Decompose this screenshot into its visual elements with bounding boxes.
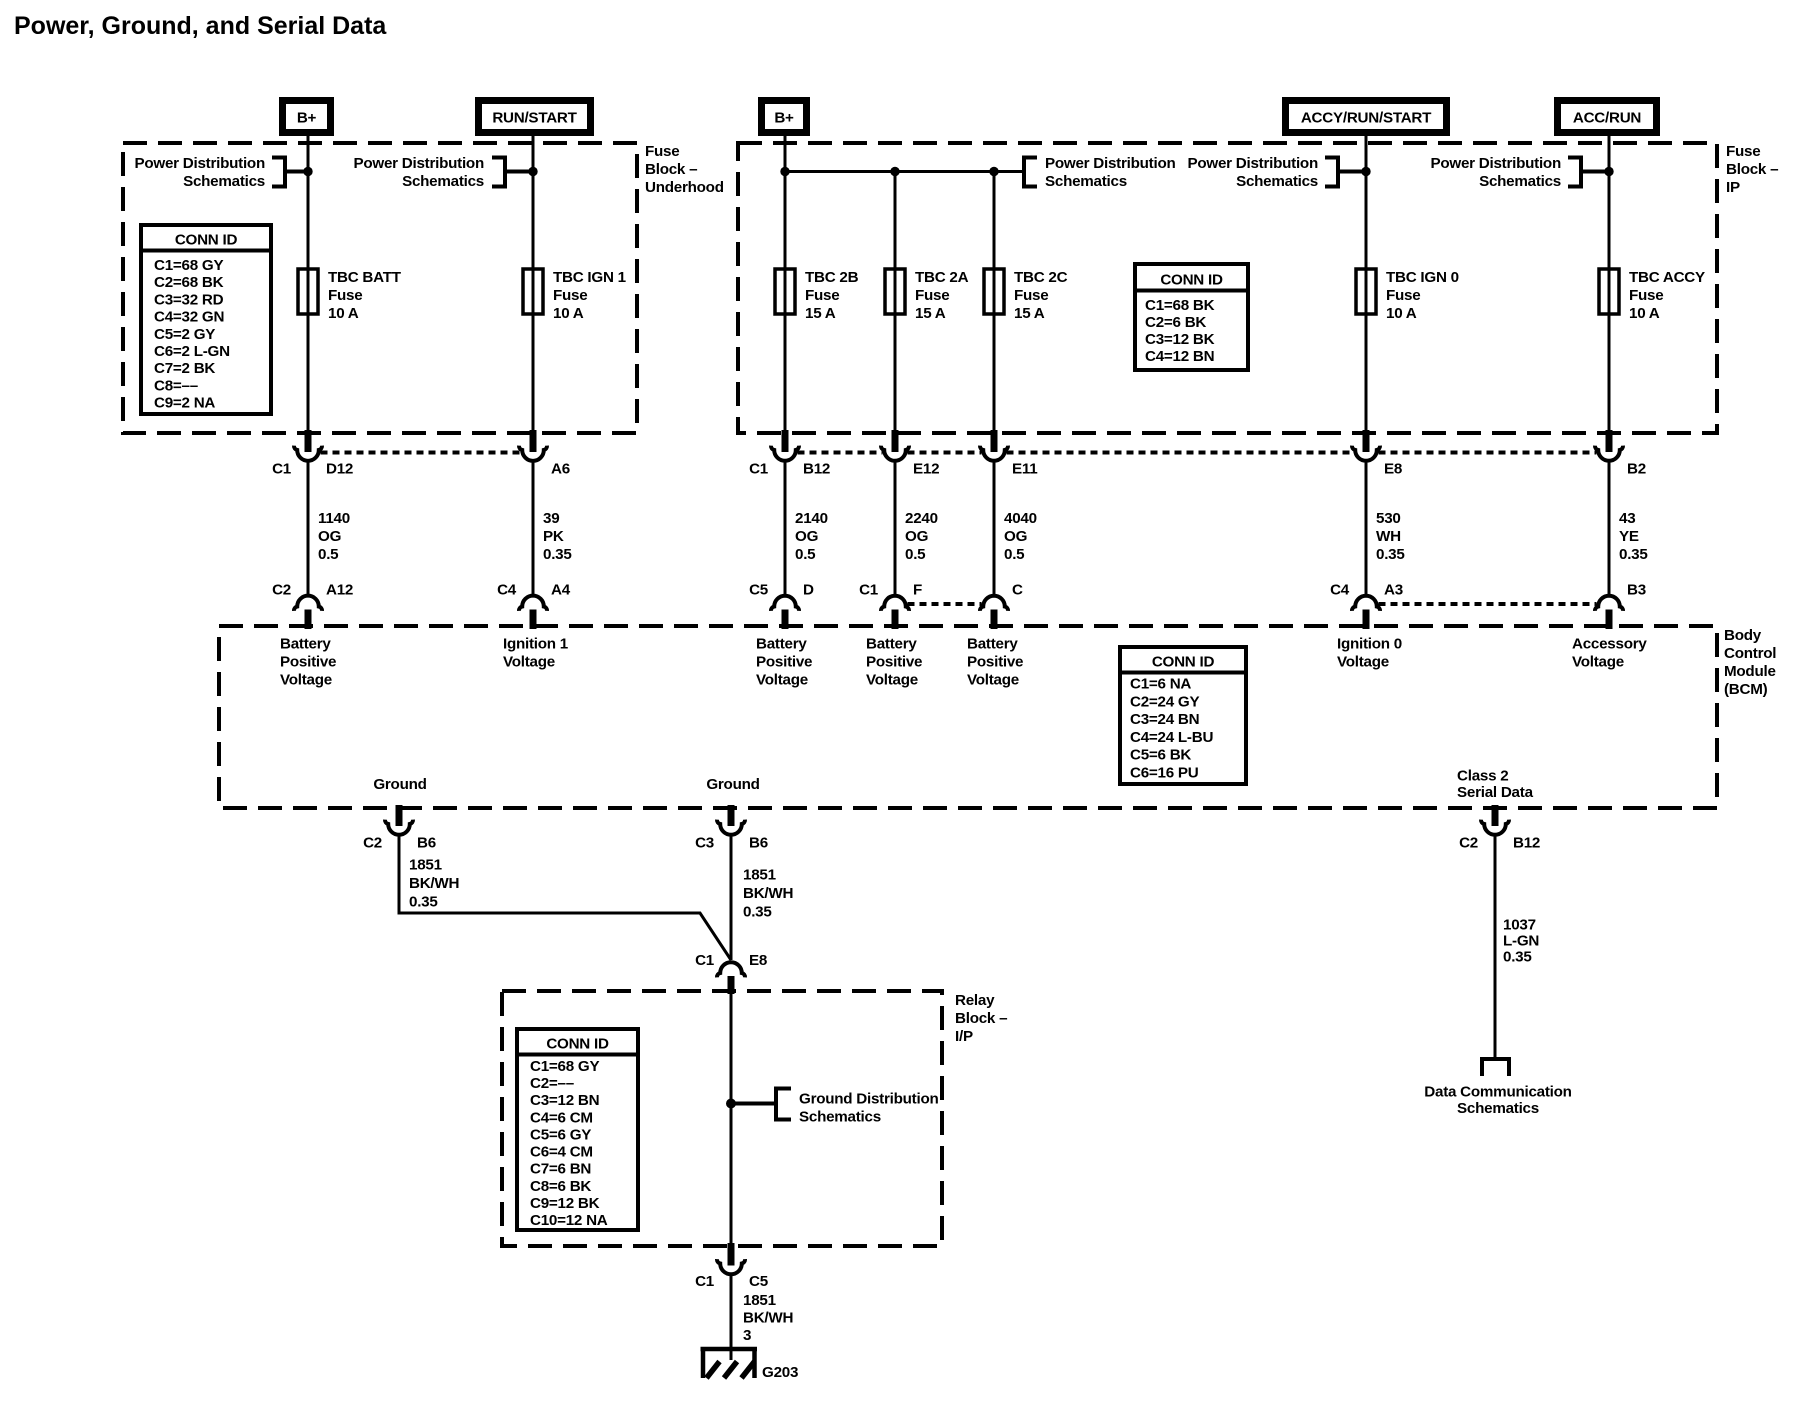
CONN ID table (Fuse Block Underhood) bbox=[141, 225, 271, 414]
wire 39 PK 0.35 bbox=[533, 462, 572, 596]
fuse TBC ACCY 10 A bbox=[1599, 269, 1705, 322]
svg-text:C4: C4 bbox=[1330, 582, 1350, 599]
connector E11 (harness side) bbox=[980, 430, 1038, 478]
svg-text:CONN ID: CONN ID bbox=[175, 232, 238, 249]
wire: TBC IGN 1 feed down fuse block column x=533 bbox=[532, 136, 535, 433]
dotted connector face line A3-B3 bbox=[1379, 602, 1597, 606]
connector C3 B6 (harness side) bbox=[695, 805, 768, 852]
svg-text:15 A: 15 A bbox=[1014, 305, 1045, 322]
svg-text:15 A: 15 A bbox=[805, 305, 836, 322]
svg-text:ACCY/RUN/START: ACCY/RUN/START bbox=[1301, 110, 1432, 127]
wire 4040 OG 0.5 bbox=[994, 462, 1037, 596]
svg-text:BK/WH: BK/WH bbox=[743, 885, 793, 902]
junction on B+ bus at TBC 2A bbox=[890, 167, 899, 176]
junction: ground distribution tap bbox=[726, 1099, 736, 1109]
svg-text:1037: 1037 bbox=[1503, 917, 1536, 934]
CONN ID table (Relay Block I/P) bbox=[517, 1029, 638, 1230]
fuse TBC 2A 15 A bbox=[885, 269, 969, 322]
svg-text:B3: B3 bbox=[1627, 582, 1646, 599]
svg-text:C1: C1 bbox=[272, 461, 292, 478]
svg-text:C1: C1 bbox=[749, 461, 769, 478]
svg-text:G203: G203 bbox=[762, 1364, 798, 1381]
svg-text:0.35: 0.35 bbox=[543, 546, 572, 563]
svg-text:A4: A4 bbox=[551, 582, 571, 599]
Power Distribution Schematics reference (TBC BATT feed) bbox=[134, 155, 312, 190]
wire: TBC ACCY feed down fuse block column x=1609 bbox=[1608, 136, 1611, 433]
svg-text:D12: D12 bbox=[326, 461, 353, 478]
svg-text:C1: C1 bbox=[695, 1273, 715, 1290]
svg-text:1140: 1140 bbox=[318, 510, 350, 527]
svg-text:C1=68 GY: C1=68 GY bbox=[530, 1058, 599, 1075]
svg-text:B6: B6 bbox=[417, 835, 436, 852]
svg-text:C10=12 NA: C10=12 NA bbox=[530, 1212, 608, 1229]
svg-text:0.35: 0.35 bbox=[1376, 546, 1405, 563]
svg-text:C2=24 GY: C2=24 GY bbox=[1130, 693, 1199, 710]
svg-text:Fuse: Fuse bbox=[1629, 287, 1663, 304]
dotted connector face line E11-E8 bbox=[1007, 451, 1354, 455]
svg-text:E8: E8 bbox=[749, 952, 767, 969]
connector C1 C5 (harness side) bbox=[695, 1243, 769, 1290]
svg-text:B+: B+ bbox=[297, 110, 317, 127]
junction on B+ bus at TBC 2C bbox=[989, 167, 998, 176]
svg-text:C6=2 L-GN: C6=2 L-GN bbox=[154, 343, 230, 360]
svg-text:A12: A12 bbox=[326, 582, 353, 599]
Fuse Block - Underhood dashed box bbox=[123, 143, 637, 433]
svg-text:1851: 1851 bbox=[743, 1292, 777, 1309]
fuse TBC BATT 10 A bbox=[298, 269, 402, 322]
svg-text:39: 39 bbox=[543, 510, 559, 527]
connector C (component side) bbox=[980, 582, 1023, 630]
Fuse Block - IP dashed box bbox=[738, 143, 1717, 433]
svg-text:10 A: 10 A bbox=[328, 305, 359, 322]
svg-text:530: 530 bbox=[1376, 510, 1401, 527]
fuse TBC IGN 0 10 A bbox=[1356, 269, 1459, 322]
svg-text:Schematics: Schematics bbox=[402, 173, 484, 190]
svg-text:C2: C2 bbox=[1459, 835, 1478, 852]
svg-text:BatteryPositiveVoltage: BatteryPositiveVoltage bbox=[967, 636, 1023, 689]
svg-text:TBC IGN 0: TBC IGN 0 bbox=[1386, 269, 1459, 286]
svg-text:Schematics: Schematics bbox=[1236, 173, 1318, 190]
svg-text:B12: B12 bbox=[803, 461, 830, 478]
svg-text:L-GN: L-GN bbox=[1503, 933, 1539, 950]
wire: TBC BATT feed down fuse block column x=308 bbox=[307, 136, 310, 433]
svg-text:C7=6 BN: C7=6 BN bbox=[530, 1161, 591, 1178]
svg-text:B6: B6 bbox=[749, 835, 768, 852]
svg-text:C7=2 BK: C7=2 BK bbox=[154, 360, 215, 377]
svg-text:0.5: 0.5 bbox=[1004, 546, 1025, 563]
svg-text:C5: C5 bbox=[749, 1273, 769, 1290]
svg-text:C5=2 GY: C5=2 GY bbox=[154, 326, 215, 343]
svg-text:TBC ACCY: TBC ACCY bbox=[1629, 269, 1705, 286]
power feed label ACC/RUN bbox=[1554, 97, 1660, 136]
svg-text:C8=––: C8=–– bbox=[154, 377, 198, 394]
svg-text:C1: C1 bbox=[695, 952, 715, 969]
svg-text:YE: YE bbox=[1619, 528, 1639, 545]
svg-text:TBC IGN 1: TBC IGN 1 bbox=[553, 269, 627, 286]
ground G203 symbol bbox=[701, 1349, 758, 1378]
svg-text:D: D bbox=[803, 582, 814, 599]
Power Distribution Schematics reference (TBC ACCY feed) bbox=[1430, 155, 1613, 190]
dotted connector face line E8-B2 bbox=[1379, 451, 1597, 455]
svg-text:CONN ID: CONN ID bbox=[546, 1036, 609, 1053]
connector C1 B12 (harness side) bbox=[749, 430, 830, 478]
svg-text:Power Distribution: Power Distribution bbox=[1187, 155, 1318, 172]
fuse TBC 2C 15 A bbox=[984, 269, 1068, 322]
svg-text:C9=12 BK: C9=12 BK bbox=[530, 1195, 600, 1212]
connector C1 F (component side) bbox=[859, 582, 922, 630]
svg-text:C6=16 PU: C6=16 PU bbox=[1130, 765, 1199, 782]
Relay Block - I/P dashed box bbox=[502, 991, 942, 1246]
svg-text:4040: 4040 bbox=[1004, 510, 1037, 527]
svg-text:B+: B+ bbox=[774, 110, 794, 127]
connector C4 A4 (component side) bbox=[497, 582, 571, 630]
svg-text:Fuse: Fuse bbox=[1014, 287, 1048, 304]
connector E8 (harness side) bbox=[1352, 430, 1402, 478]
svg-text:E12: E12 bbox=[913, 461, 939, 478]
svg-text:C3=12 BN: C3=12 BN bbox=[530, 1092, 599, 1109]
svg-text:OG: OG bbox=[1004, 528, 1027, 545]
connector A6 (harness side) bbox=[519, 430, 570, 478]
wire 43 YE 0.35 bbox=[1609, 462, 1648, 596]
wire 530 WH 0.35 bbox=[1366, 462, 1405, 596]
svg-text:OG: OG bbox=[905, 528, 928, 545]
svg-text:Fuse: Fuse bbox=[915, 287, 949, 304]
svg-text:C2: C2 bbox=[363, 835, 382, 852]
svg-text:Power, Ground, and Serial Data: Power, Ground, and Serial Data bbox=[14, 12, 387, 40]
connector E12 (harness side) bbox=[881, 430, 939, 478]
svg-text:10 A: 10 A bbox=[553, 305, 584, 322]
svg-text:Ground: Ground bbox=[373, 776, 426, 793]
svg-text:Power Distribution: Power Distribution bbox=[1045, 155, 1176, 172]
connector C1 E8 (component side) bbox=[695, 952, 767, 994]
svg-text:WH: WH bbox=[1376, 528, 1401, 545]
svg-text:C9=2 NA: C9=2 NA bbox=[154, 395, 215, 412]
svg-text:Power Distribution: Power Distribution bbox=[1430, 155, 1561, 172]
svg-text:C: C bbox=[1012, 582, 1023, 599]
svg-text:B2: B2 bbox=[1627, 461, 1646, 478]
svg-text:Power Distribution: Power Distribution bbox=[353, 155, 484, 172]
svg-text:E8: E8 bbox=[1384, 461, 1402, 478]
svg-text:0.35: 0.35 bbox=[1503, 949, 1532, 966]
dotted connector face line D12-A6 bbox=[321, 451, 521, 455]
svg-text:A6: A6 bbox=[551, 461, 570, 478]
svg-text:10 A: 10 A bbox=[1629, 305, 1660, 322]
svg-text:0.5: 0.5 bbox=[318, 546, 339, 563]
svg-text:C2=68 BK: C2=68 BK bbox=[154, 274, 224, 291]
connector C2 A12 (component side) bbox=[272, 582, 353, 630]
off-page terminator (serial data to data communication schematics) bbox=[1482, 1059, 1509, 1076]
fuse TBC IGN 1 10 A bbox=[523, 269, 627, 322]
power feed label ACCY/RUN/START bbox=[1282, 97, 1450, 136]
svg-text:OG: OG bbox=[795, 528, 818, 545]
svg-text:15 A: 15 A bbox=[915, 305, 946, 322]
svg-text:E11: E11 bbox=[1012, 461, 1038, 478]
svg-text:OG: OG bbox=[318, 528, 341, 545]
svg-text:C1=6 NA: C1=6 NA bbox=[1130, 676, 1191, 693]
Power Distribution Schematics reference (IP B+ bus) bbox=[1024, 155, 1176, 190]
fuse TBC 2B 15 A bbox=[775, 269, 859, 322]
svg-text:Fuse: Fuse bbox=[1386, 287, 1420, 304]
wire: TBC 2A feed down fuse block column x=895 bbox=[894, 171, 897, 433]
svg-text:C1: C1 bbox=[859, 582, 879, 599]
svg-text:2240: 2240 bbox=[905, 510, 938, 527]
Ground Distribution Schematics reference bbox=[731, 1089, 939, 1126]
svg-text:B12: B12 bbox=[1513, 835, 1540, 852]
svg-text:C3: C3 bbox=[695, 835, 714, 852]
svg-text:Schematics: Schematics bbox=[1045, 173, 1127, 190]
power feed label RUN/START bbox=[475, 97, 594, 136]
Power Distribution Schematics reference (TBC IGN 1 feed) bbox=[353, 155, 537, 190]
svg-text:3: 3 bbox=[743, 1327, 751, 1344]
wire 1037 L-GN 0.35 (Class 2 serial data) bbox=[1495, 836, 1539, 1060]
svg-text:0.5: 0.5 bbox=[905, 546, 926, 563]
wire: TBC 2B feed down fuse block column x=785 bbox=[784, 136, 787, 433]
svg-text:C2=––: C2=–– bbox=[530, 1075, 574, 1092]
svg-text:ACC/RUN: ACC/RUN bbox=[1573, 110, 1641, 127]
svg-text:Fuse: Fuse bbox=[805, 287, 839, 304]
svg-text:Fuse: Fuse bbox=[553, 287, 587, 304]
svg-text:F: F bbox=[913, 582, 922, 599]
wire 1851 BK/WH 3 (to ground G203) bbox=[731, 1276, 793, 1361]
dotted connector face line E12-E11 bbox=[908, 451, 982, 455]
svg-text:C4=24 L-BU: C4=24 L-BU bbox=[1130, 729, 1213, 746]
svg-text:TBC 2C: TBC 2C bbox=[1014, 269, 1068, 286]
svg-text:C3=12 BK: C3=12 BK bbox=[1145, 331, 1215, 348]
svg-text:10 A: 10 A bbox=[1386, 305, 1417, 322]
svg-text:0.35: 0.35 bbox=[743, 904, 772, 921]
svg-text:C4: C4 bbox=[497, 582, 517, 599]
wire 1851 BK/WH 0.35 (left ground, BCM C2-B6) bbox=[399, 836, 731, 961]
Power Distribution Schematics reference (TBC IGN 0 feed) bbox=[1187, 155, 1370, 190]
CONN ID table (BCM) bbox=[1120, 647, 1246, 784]
svg-text:TBC BATT: TBC BATT bbox=[328, 269, 402, 286]
svg-text:C8=6 BK: C8=6 BK bbox=[530, 1178, 591, 1195]
connector C2 B6 (harness side) bbox=[363, 805, 436, 852]
svg-text:TBC 2A: TBC 2A bbox=[915, 269, 969, 286]
svg-text:BK/WH: BK/WH bbox=[409, 875, 459, 892]
CONN ID table (Fuse Block IP) bbox=[1135, 264, 1248, 370]
Body Control Module (BCM) dashed box bbox=[219, 626, 1717, 808]
svg-text:1851: 1851 bbox=[409, 857, 443, 874]
svg-text:Ground Distribution: Ground Distribution bbox=[799, 1091, 939, 1108]
svg-text:A3: A3 bbox=[1384, 582, 1403, 599]
svg-text:0.35: 0.35 bbox=[409, 894, 438, 911]
svg-text:BatteryPositiveVoltage: BatteryPositiveVoltage bbox=[756, 636, 812, 689]
svg-text:CONN ID: CONN ID bbox=[1160, 272, 1223, 289]
svg-text:C3=24 BN: C3=24 BN bbox=[1130, 711, 1199, 728]
wire: TBC 2C feed down fuse block column x=994 bbox=[993, 171, 996, 433]
svg-text:CONN ID: CONN ID bbox=[1152, 654, 1215, 671]
wire: TBC IGN 0 feed down fuse block column x=1366 bbox=[1365, 136, 1368, 433]
wire: B+ bus in IP fuse block bbox=[785, 170, 1024, 173]
wire 1851 BK/WH 0.35 (right ground, BCM C3-B6) bbox=[731, 836, 793, 961]
dotted connector face line F-C bbox=[908, 602, 982, 606]
junction on B+ bus at TBC 2B bbox=[780, 167, 789, 176]
svg-text:Power Distribution: Power Distribution bbox=[134, 155, 265, 172]
svg-text:43: 43 bbox=[1619, 510, 1635, 527]
svg-text:0.5: 0.5 bbox=[795, 546, 816, 563]
svg-text:C4=32 GN: C4=32 GN bbox=[154, 309, 224, 326]
wire: ground through relay block bbox=[730, 991, 733, 1246]
svg-text:C5: C5 bbox=[749, 582, 769, 599]
connector C2 B12 (harness side) bbox=[1459, 805, 1540, 852]
connector B3 (component side) bbox=[1595, 582, 1646, 630]
svg-text:0.35: 0.35 bbox=[1619, 546, 1648, 563]
wire 2140 OG 0.5 bbox=[785, 462, 828, 596]
svg-text:Schematics: Schematics bbox=[799, 1109, 881, 1126]
svg-text:C5=6 BK: C5=6 BK bbox=[1130, 747, 1191, 764]
wire 2240 OG 0.5 bbox=[895, 462, 938, 596]
svg-text:BK/WH: BK/WH bbox=[743, 1310, 793, 1327]
svg-text:C1=68 BK: C1=68 BK bbox=[1145, 297, 1215, 314]
svg-text:C1=68 GY: C1=68 GY bbox=[154, 257, 223, 274]
svg-text:Schematics: Schematics bbox=[183, 173, 265, 190]
wire 1140 OG 0.5 bbox=[308, 462, 350, 596]
power feed label B+ (IP) bbox=[758, 97, 810, 136]
svg-text:Fuse: Fuse bbox=[328, 287, 362, 304]
svg-text:C3=32 RD: C3=32 RD bbox=[154, 291, 224, 308]
connector C5 D (component side) bbox=[749, 582, 814, 630]
power feed label B+ (underhood left) bbox=[279, 97, 334, 136]
svg-text:C4=12 BN: C4=12 BN bbox=[1145, 348, 1214, 365]
svg-text:BatteryPositiveVoltage: BatteryPositiveVoltage bbox=[866, 636, 922, 689]
svg-text:RUN/START: RUN/START bbox=[492, 110, 577, 127]
connector C1 D12 (harness side) bbox=[272, 430, 353, 478]
svg-text:C4=6 CM: C4=6 CM bbox=[530, 1109, 593, 1126]
connector B2 (harness side) bbox=[1595, 430, 1646, 478]
svg-text:BatteryPositiveVoltage: BatteryPositiveVoltage bbox=[280, 636, 336, 689]
svg-text:1851: 1851 bbox=[743, 867, 777, 884]
svg-text:TBC 2B: TBC 2B bbox=[805, 269, 859, 286]
svg-text:C2=6 BK: C2=6 BK bbox=[1145, 314, 1206, 331]
svg-text:2140: 2140 bbox=[795, 510, 828, 527]
svg-text:C2: C2 bbox=[272, 582, 291, 599]
svg-text:Schematics: Schematics bbox=[1479, 173, 1561, 190]
svg-text:C5=6 GY: C5=6 GY bbox=[530, 1126, 591, 1143]
svg-text:PK: PK bbox=[543, 528, 564, 545]
svg-text:Ground: Ground bbox=[706, 776, 759, 793]
connector C4 A3 (component side) bbox=[1330, 582, 1403, 630]
dotted connector face line B12-E12 bbox=[798, 451, 883, 455]
svg-text:C6=4 CM: C6=4 CM bbox=[530, 1144, 593, 1161]
